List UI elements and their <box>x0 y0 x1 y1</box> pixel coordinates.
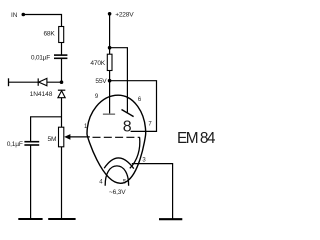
wire D2 to pot top <box>61 98 63 128</box>
ground G3 <box>159 218 182 220</box>
wire IN to 68K top <box>23 15 61 27</box>
anode slant plate pin6 <box>122 110 134 117</box>
svg-text:EM 84: EM 84 <box>177 130 216 147</box>
wire 55V down to target <box>109 81 111 114</box>
svg-text:8: 8 <box>123 118 132 135</box>
wire node A to input terminal <box>9 81 62 83</box>
resistor 470K <box>107 54 112 70</box>
svg-text:55V: 55V <box>95 78 107 85</box>
wire C2 to ground <box>30 145 32 219</box>
wire branch to C2 <box>31 117 62 142</box>
svg-text:5M: 5M <box>48 136 57 143</box>
tube EM84 envelope <box>87 95 146 183</box>
svg-text:~6,3V: ~6,3V <box>109 189 126 196</box>
node A junction dot <box>60 80 64 84</box>
svg-text:0,1µF: 0,1µF <box>7 141 23 148</box>
capacitor C1 0,01uF <box>54 55 67 58</box>
wire pot bottom to ground <box>61 147 63 219</box>
wire 68K to C1 <box>61 43 63 56</box>
junction dot B <box>108 46 112 50</box>
svg-text:0,01µF: 0,01µF <box>31 54 50 61</box>
node IN junction dot <box>22 13 26 17</box>
ground G2 <box>48 218 75 220</box>
wire branch to pin 6 <box>110 48 128 113</box>
resistor 68K <box>59 27 64 43</box>
capacitor C2 0,1uF <box>24 142 39 145</box>
cathode arc <box>104 158 134 169</box>
heater omega <box>105 166 128 186</box>
node +228V dot <box>108 12 112 16</box>
diode D2 vertical <box>58 90 65 98</box>
svg-text:+228V: +228V <box>115 12 134 19</box>
ground G1 <box>18 218 42 220</box>
wire +228V down to 470K <box>109 14 111 54</box>
svg-text:IN: IN <box>11 12 18 19</box>
target plate pin9 <box>103 113 115 115</box>
potentiometer wiper arrow <box>64 134 90 140</box>
grid dashed line pin1 <box>93 136 140 138</box>
potentiometer 5M body <box>59 127 64 147</box>
wire 470K to 55V node <box>109 71 111 81</box>
terminal bar left <box>8 78 10 86</box>
wire pin 3 to ground <box>132 164 173 219</box>
svg-text:470K: 470K <box>90 60 105 67</box>
electrode curve right <box>130 137 140 168</box>
wire C1 to node A <box>61 58 63 82</box>
svg-text:1N4148: 1N4148 <box>30 91 53 98</box>
node 55V dot <box>108 79 112 83</box>
diode D1 1N4148 horizontal <box>38 78 47 85</box>
wire 55V box to pin 7 <box>110 81 157 132</box>
svg-text:68K: 68K <box>43 31 55 38</box>
